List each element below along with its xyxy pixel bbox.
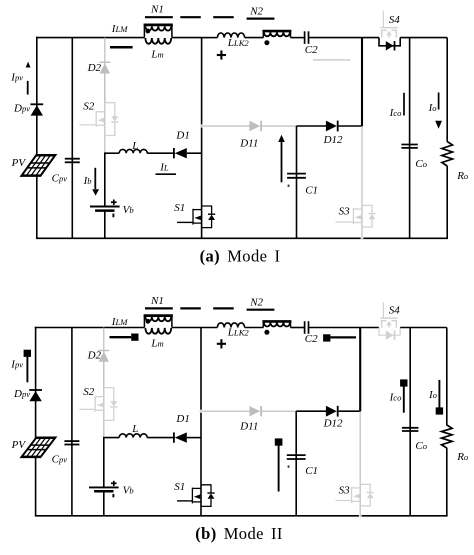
diode D2: [98, 351, 109, 362]
wire L to D1: [147, 152, 175, 154]
wire C2 to node B: [309, 37, 363, 39]
body diode path of S4: [379, 328, 400, 336]
gate wire of S3: [336, 500, 352, 502]
inductor L: [119, 434, 147, 438]
svg-text:Ro: Ro: [456, 451, 469, 463]
output capacitor rail: [409, 38, 411, 239]
wire S4 to output node: [400, 37, 447, 39]
svg-text:L: L: [131, 140, 138, 152]
wire battery to bottom bus: [104, 211, 106, 239]
svg-text:D12: D12: [323, 134, 343, 146]
wire top-left bus: [35, 327, 145, 329]
wire top-left bus: [36, 37, 145, 39]
svg-text:N1: N1: [150, 295, 164, 307]
current marker Ipv: [24, 350, 31, 357]
svg-text:Ico: Ico: [389, 392, 402, 404]
gate wire of S1: [177, 500, 192, 502]
wire transformer to node A: [172, 37, 202, 39]
wire battery node to inductor L: [103, 437, 119, 439]
wire LLK2 to N2: [245, 327, 264, 329]
blocking diode Dpv: [31, 105, 43, 115]
wire left edge: [36, 37, 38, 239]
svg-text:Dpv: Dpv: [13, 388, 30, 400]
svg-text:D2: D2: [87, 62, 102, 74]
capacitor Co: [402, 427, 418, 429]
node B rail lower gray segment: [359, 411, 361, 517]
svg-text:ILM: ILM: [111, 316, 128, 328]
switch S4: [380, 302, 397, 327]
svg-text:S4: S4: [389, 305, 401, 317]
wire D11 to node C: [262, 125, 297, 127]
wire right edge upper: [446, 38, 448, 142]
svg-text:S1: S1: [174, 481, 185, 493]
node C rail with clamp capacitor: [295, 411, 297, 516]
secondary winding N2: [262, 31, 291, 37]
secondary current marker: [313, 59, 351, 61]
svg-text:Ib: Ib: [83, 175, 93, 187]
load resistor Ro: [442, 142, 453, 167]
wire node B to S4: [360, 327, 379, 329]
capacitor C1: [287, 454, 306, 456]
svg-text:C1: C1: [305, 185, 318, 197]
gate wire of S3: [336, 221, 354, 223]
polarity plus of primary side: [217, 343, 226, 345]
svg-text:Ipv: Ipv: [10, 71, 23, 83]
svg-text:S1: S1: [174, 202, 185, 214]
capacitor Cpv: [65, 158, 80, 160]
current marker Ico: [403, 93, 405, 116]
current marker ILM: [110, 46, 133, 49]
wire right edge upper: [446, 328, 448, 426]
wire D11 to node C: [262, 410, 296, 412]
svg-text:N2: N2: [249, 297, 263, 309]
svg-text:Ro: Ro: [456, 170, 469, 182]
current marker Ipv: [26, 62, 31, 68]
battery plus sign: [111, 482, 117, 484]
wire D2 to S2: [103, 362, 105, 438]
wire N2 to C2: [291, 37, 305, 39]
sub-circuit (a) Mode I: [10, 4, 469, 240]
wire L node to battery: [103, 438, 105, 488]
underline of N2: [247, 309, 275, 311]
leakage inductor LLK2: [217, 323, 244, 328]
diode D2: [99, 62, 110, 73]
tick mark near C1: [288, 465, 290, 467]
transformer primary N1 with magnetizing inductor Lm: [144, 316, 173, 334]
PV panel: [22, 438, 56, 457]
wire L to D1: [147, 437, 175, 439]
svg-text:C2: C2: [305, 44, 318, 56]
svg-text:N1: N1: [150, 4, 164, 16]
transformer core dashed line: [180, 307, 201, 309]
svg-text:S4: S4: [389, 14, 401, 26]
body diode path of S4: [379, 38, 400, 46]
switch S1: [192, 485, 214, 507]
output capacitor rail: [409, 328, 411, 516]
svg-text:Co: Co: [415, 440, 427, 452]
svg-text:L: L: [131, 423, 138, 435]
diode D12: [326, 121, 337, 132]
inductor L: [119, 149, 147, 153]
svg-text:Ipv: Ipv: [10, 359, 23, 371]
node A vertical rail: [200, 328, 202, 516]
wire L node to battery: [104, 153, 106, 206]
node A vertical rail: [201, 38, 203, 239]
polarity dot of N1: [146, 319, 151, 324]
wire node B to S4: [362, 37, 379, 39]
capacitor C2: [304, 31, 306, 44]
node B rail upper black segment: [361, 38, 363, 126]
switch S2: [95, 388, 117, 421]
battery Vb: [89, 486, 119, 488]
wire battery to bottom bus: [103, 491, 105, 516]
gate wire of S2: [79, 408, 95, 410]
svg-text:S3: S3: [339, 484, 351, 496]
polarity dot of N1: [146, 29, 151, 34]
svg-text:N2: N2: [249, 5, 263, 17]
wire right edge lower: [446, 448, 448, 516]
current marker Io: [438, 93, 440, 110]
wire C2 to node B: [309, 327, 361, 329]
svg-text:IL: IL: [159, 162, 169, 174]
wire D1 to node A: [187, 152, 202, 154]
svg-text:PV: PV: [11, 439, 27, 451]
svg-text:D11: D11: [239, 138, 258, 150]
junction notch at bottom bus: [361, 237, 364, 240]
wire S4 to output node: [400, 327, 447, 329]
battery Vb: [90, 206, 120, 208]
switch S2: [96, 103, 118, 136]
svg-text:Io: Io: [428, 102, 438, 114]
svg-text:D2: D2: [87, 350, 102, 362]
current marker IL: [156, 173, 177, 175]
capacitor Cpv: [64, 440, 79, 442]
wire D1 to node A: [187, 437, 201, 439]
gate wire of S1: [177, 221, 193, 223]
wire LLK2 to N2: [245, 37, 264, 39]
svg-text:C1: C1: [305, 465, 318, 477]
junction notch at bottom bus: [359, 514, 362, 517]
switch S3: [353, 205, 375, 227]
svg-text:Lm: Lm: [150, 337, 163, 349]
diode D1: [175, 432, 187, 442]
svg-text:Dpv: Dpv: [13, 103, 30, 115]
svg-text:ILM: ILM: [111, 23, 128, 35]
battery minus sign: [112, 214, 114, 218]
wire node A to D11: [200, 125, 250, 127]
wire node C to D12: [297, 125, 327, 127]
capacitor Co: [401, 144, 417, 146]
svg-text:D12: D12: [323, 417, 343, 429]
PV panel: [22, 155, 56, 175]
leakage inductor LLK2: [217, 33, 244, 38]
svg-text:Co: Co: [415, 158, 427, 170]
battery minus sign: [112, 494, 114, 497]
battery branch rail: [103, 328, 105, 389]
current marker of C1: [281, 141, 283, 182]
svg-text:Cpv: Cpv: [52, 453, 68, 465]
wire node A to LLK2: [201, 327, 217, 329]
wire N2 to C2: [291, 327, 305, 329]
underline of N2: [247, 18, 275, 20]
svg-text:LLK2: LLK2: [227, 37, 250, 49]
blocking diode Dpv: [29, 391, 41, 401]
input capacitor rail: [71, 38, 73, 239]
junction notch at node A: [200, 125, 203, 128]
switch S4: [380, 11, 397, 38]
wire right edge lower: [446, 166, 448, 239]
current marker Ib: [94, 168, 96, 189]
current marker ILM: [110, 336, 132, 338]
polarity dot of N2: [264, 330, 269, 335]
svg-text:Vb: Vb: [123, 204, 135, 216]
wire D12 to node B: [339, 410, 361, 412]
secondary current marker: [330, 336, 356, 338]
current marker Ico: [403, 386, 405, 413]
wire node A to LLK2: [202, 37, 218, 39]
svg-text:D1: D1: [175, 413, 189, 425]
svg-text:Io: Io: [428, 389, 438, 401]
wire node A to D11: [200, 410, 251, 412]
body diode of S4: [386, 331, 394, 340]
transformer primary N1 with magnetizing inductor Lm: [144, 25, 173, 44]
svg-text:C2: C2: [305, 333, 318, 345]
diode D11: [249, 406, 260, 416]
diode D1: [175, 148, 187, 158]
tick mark near C1: [288, 185, 290, 187]
wire bottom bus: [35, 515, 448, 517]
polarity plus of primary side: [217, 54, 226, 56]
current marker of C1: [278, 445, 280, 491]
switch S3: [352, 484, 374, 506]
body diode of S4: [386, 41, 394, 50]
wire bottom bus: [36, 237, 448, 239]
gate wire of S2: [79, 124, 96, 126]
capacitor C1: [287, 173, 306, 175]
diode D12: [326, 406, 337, 417]
wire battery node to inductor L: [104, 152, 119, 154]
underline of N1: [145, 307, 173, 309]
battery branch rail: [104, 38, 106, 103]
svg-text:Ico: Ico: [389, 107, 402, 119]
battery plus sign: [111, 201, 117, 203]
capacitor C2: [304, 321, 306, 334]
svg-text:PV: PV: [11, 157, 27, 169]
secondary winding N2: [262, 321, 291, 327]
current marker Io: [438, 380, 440, 408]
wire transformer to node A: [172, 327, 201, 329]
wire left edge: [35, 327, 37, 516]
wire node C to D12: [296, 410, 326, 412]
wire D12 to node B: [339, 125, 363, 127]
svg-text:(a) Mode I: (a) Mode I: [200, 247, 281, 266]
diode D11: [249, 121, 260, 131]
node B rail upper black segment: [359, 328, 361, 412]
wire D2 to S2: [104, 74, 106, 153]
load resistor Ro: [442, 425, 453, 448]
junction notch at node A: [200, 410, 203, 413]
input capacitor rail: [71, 328, 73, 516]
switch S1: [193, 206, 215, 228]
svg-text:D11: D11: [239, 421, 258, 433]
sub-circuit (b) Mode II: [10, 295, 469, 517]
svg-text:Vb: Vb: [123, 485, 135, 497]
node B rail lower gray segment: [361, 126, 363, 240]
svg-text:(b) Mode II: (b) Mode II: [195, 524, 283, 543]
svg-text:D1: D1: [175, 130, 189, 142]
svg-text:Lm: Lm: [150, 49, 163, 61]
polarity dot of N2: [264, 40, 269, 45]
svg-text:Cpv: Cpv: [52, 172, 68, 184]
underline of N1: [145, 16, 173, 18]
transformer core dashed line: [180, 16, 201, 18]
svg-text:S2: S2: [83, 386, 95, 398]
svg-text:S3: S3: [339, 205, 351, 217]
node C rail with clamp capacitor: [296, 126, 298, 238]
svg-text:S2: S2: [83, 100, 95, 112]
